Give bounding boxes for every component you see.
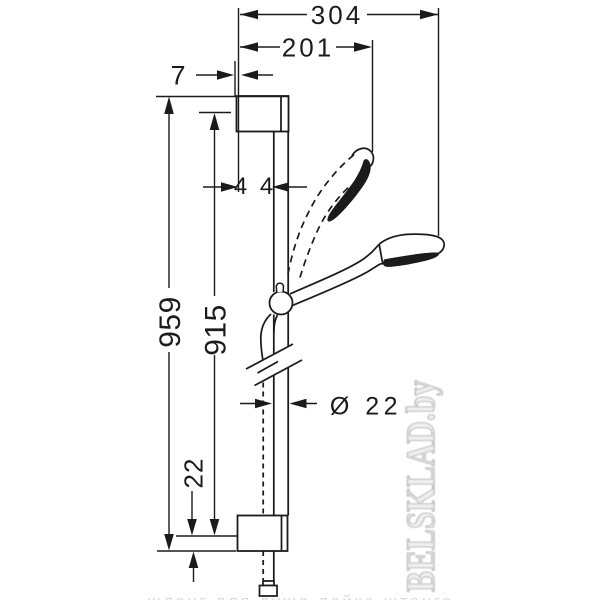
slider pin [276,283,283,292]
svg-text:201: 201 [282,33,334,63]
shower rail right line [287,96,289,516]
extension line top hole [199,112,231,114]
extension line rail top [156,96,289,98]
svg-text:шланг для душа лейка штанга: шланг для душа лейка штанга [147,592,454,600]
svg-text:22: 22 [179,458,209,489]
arrow 304 left [240,10,258,19]
hose left edge (dashed lower part) [262,383,264,516]
arrow 201 left [240,42,258,51]
arrow dia22 right-pointing [255,399,272,408]
svg-text:959: 959 [154,296,187,348]
svg-text:304: 304 [311,0,363,30]
dimension dia22 line [240,403,317,405]
svg-text:Ø 22: Ø 22 [330,393,402,421]
dimension 201 line [240,46,360,48]
hand shower head shadow [383,253,439,267]
extension line bottom hole [176,535,237,537]
hand shower handle [290,245,379,295]
svg-text:BELSKLAD.by: BELSKLAD.by [398,380,443,592]
extension line rail bottom [157,550,236,552]
dimension 959 line [168,113,170,535]
raised shower head tip [352,148,373,166]
svg-text:4 4: 4 4 [234,173,276,200]
arrow 7 right-pointing [217,70,234,79]
shower rail left line [273,132,275,516]
raised shower outline (dashed) left [288,153,357,275]
svg-text:915: 915 [200,304,233,356]
arrow 7 left-pointing [241,70,258,79]
svg-text:7: 7 [170,61,188,91]
arrow 915 down [210,519,220,536]
dimension 304 line [240,14,438,16]
raised shower head shadow [327,159,370,221]
dimension 915 line [214,129,216,520]
extension line raised head center [372,40,374,152]
arrow 959 up [164,97,174,115]
extension line bracket left [234,61,236,96]
arrow 44 right-pointing [221,182,238,191]
hose end fitting [260,581,278,596]
hand shower head [379,234,444,264]
slider ball [270,292,293,315]
hose left edge (solid upper part) [261,314,271,361]
dimension 44 line [203,186,307,188]
arrow 915 up [210,113,220,130]
extension line wall (left reference) [238,8,240,192]
bottom wall bracket [238,516,288,552]
dimension 22 line [192,491,194,582]
extension line 304 right [438,8,440,236]
hose break symbol [246,344,302,386]
raised shower outline (dashed) right [300,185,351,278]
arrow 304 right [420,10,438,19]
dimension 7 line [196,74,273,76]
hose below bottom bracket [262,551,264,581]
arrow 22 down [187,519,197,536]
arrow 959 down [164,534,174,551]
arrow dia22 left-pointing [290,399,307,408]
top wall bracket [237,96,289,132]
arrow 22 up (below) [189,552,199,569]
hose right edge upper curve [274,315,278,332]
arrow 201 right [354,42,372,51]
arrow 44 left-pointing [272,182,289,191]
